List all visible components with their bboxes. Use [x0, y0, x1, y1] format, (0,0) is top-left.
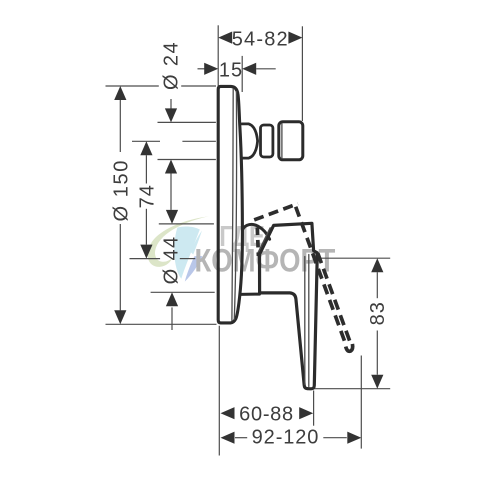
rosette bottom edge [241, 293, 260, 296]
svg-text:83: 83 [367, 301, 389, 325]
watermark logo blue swoosh [185, 256, 203, 282]
extension dashed tip x361.3 [360, 356, 362, 449]
grip inner line 2 [308, 255, 310, 387]
connector cylinder [279, 122, 303, 160]
lever body and grip outline [260, 223, 318, 389]
arrow 83 top (up) [371, 258, 383, 272]
line O44 bottom y292.3 [151, 291, 215, 293]
grip inner line 1 [304, 257, 306, 385]
dashed left edge of raised body [257, 228, 258, 257]
svg-text:92-120: 92-120 [252, 427, 320, 449]
plate contour line 1 [232, 89, 233, 321]
line center y141.3 [132, 140, 160, 142]
line O44 top y223.9 [159, 223, 214, 225]
lever inner slant line [258, 228, 270, 253]
dim axis 74 stems [145, 155, 147, 183]
svg-text:15: 15 [219, 59, 243, 81]
dashed top edge of raised body [254, 204, 298, 220]
svg-text:Ø 150: Ø 150 [111, 159, 133, 221]
connector dome [242, 124, 258, 158]
extension bottom left x219.3 [218, 326, 220, 456]
plate contour line 2 [234, 92, 236, 320]
arrow O44 bottom (up, below line) [166, 292, 178, 306]
plate outline thick [218, 86, 242, 323]
line cartridge center y258.6 [130, 258, 161, 260]
watermark logo green leaf [148, 216, 209, 281]
arrow 60-88 left [221, 407, 235, 419]
svg-text:54-82: 54-82 [232, 28, 289, 50]
arrow O44 top (down, above line) [166, 210, 178, 224]
extension lever tip x313.6 [313, 391, 315, 426]
dashed grip left line [296, 207, 346, 345]
dim axis O150 x120.3 [119, 100, 121, 152]
connector cylinder inner line [281, 124, 283, 159]
arrow O150 bottom (down) [114, 310, 126, 324]
extension line top right x302 [301, 26, 303, 121]
svg-text:60-88: 60-88 [239, 403, 294, 425]
dim 15 right tail [256, 68, 276, 70]
dim axis O24 stems [170, 99, 172, 109]
plate top extension y86 [106, 85, 159, 87]
dashed grip right line [317, 251, 351, 345]
arrow O150 top (up) [114, 86, 126, 100]
arrow O24 bottom (up, below line) [165, 160, 177, 174]
svg-text:74: 74 [137, 184, 159, 208]
svg-text:Ø 44: Ø 44 [160, 235, 182, 284]
arrow 92-120 left [221, 432, 235, 444]
dim axis O44 bottom stem [171, 307, 173, 330]
watermark logo cyan drop [174, 226, 200, 278]
extension line 15-right x242 [241, 56, 243, 92]
arrow 15 right (points left) [242, 63, 256, 75]
handle rosette arc [242, 224, 269, 239]
connector ring [261, 125, 273, 157]
arrow 92-120 right [347, 432, 361, 444]
plate bottom extension y324.3 [106, 323, 217, 325]
dim 83 top line y258.2 [320, 257, 390, 259]
arrow 60-88 right [299, 407, 313, 419]
arrow 15 left (points right) [204, 63, 218, 75]
arrow 74 bottom (down) [140, 245, 152, 259]
dim 83 bottom line y388.7 [309, 388, 391, 390]
svg-text:Ø 24: Ø 24 [161, 41, 183, 90]
arrow O24 top (down, above line) [165, 108, 177, 122]
dim 92-120 tails [235, 437, 247, 439]
dim 15 left tail [198, 68, 205, 70]
extension line top left x218 [217, 25, 219, 86]
arrow 74 top (up) [140, 141, 152, 155]
line O24 top y122.4 [158, 121, 216, 123]
dim axis 83 stems [376, 272, 378, 298]
line O24 bottom y159.5 [158, 159, 216, 161]
arrow 54-82 left [218, 32, 232, 44]
dashed grip tip cap [346, 344, 353, 351]
arrow 83 bottom (down) [371, 375, 383, 389]
arrow 54-82 right [288, 32, 302, 44]
